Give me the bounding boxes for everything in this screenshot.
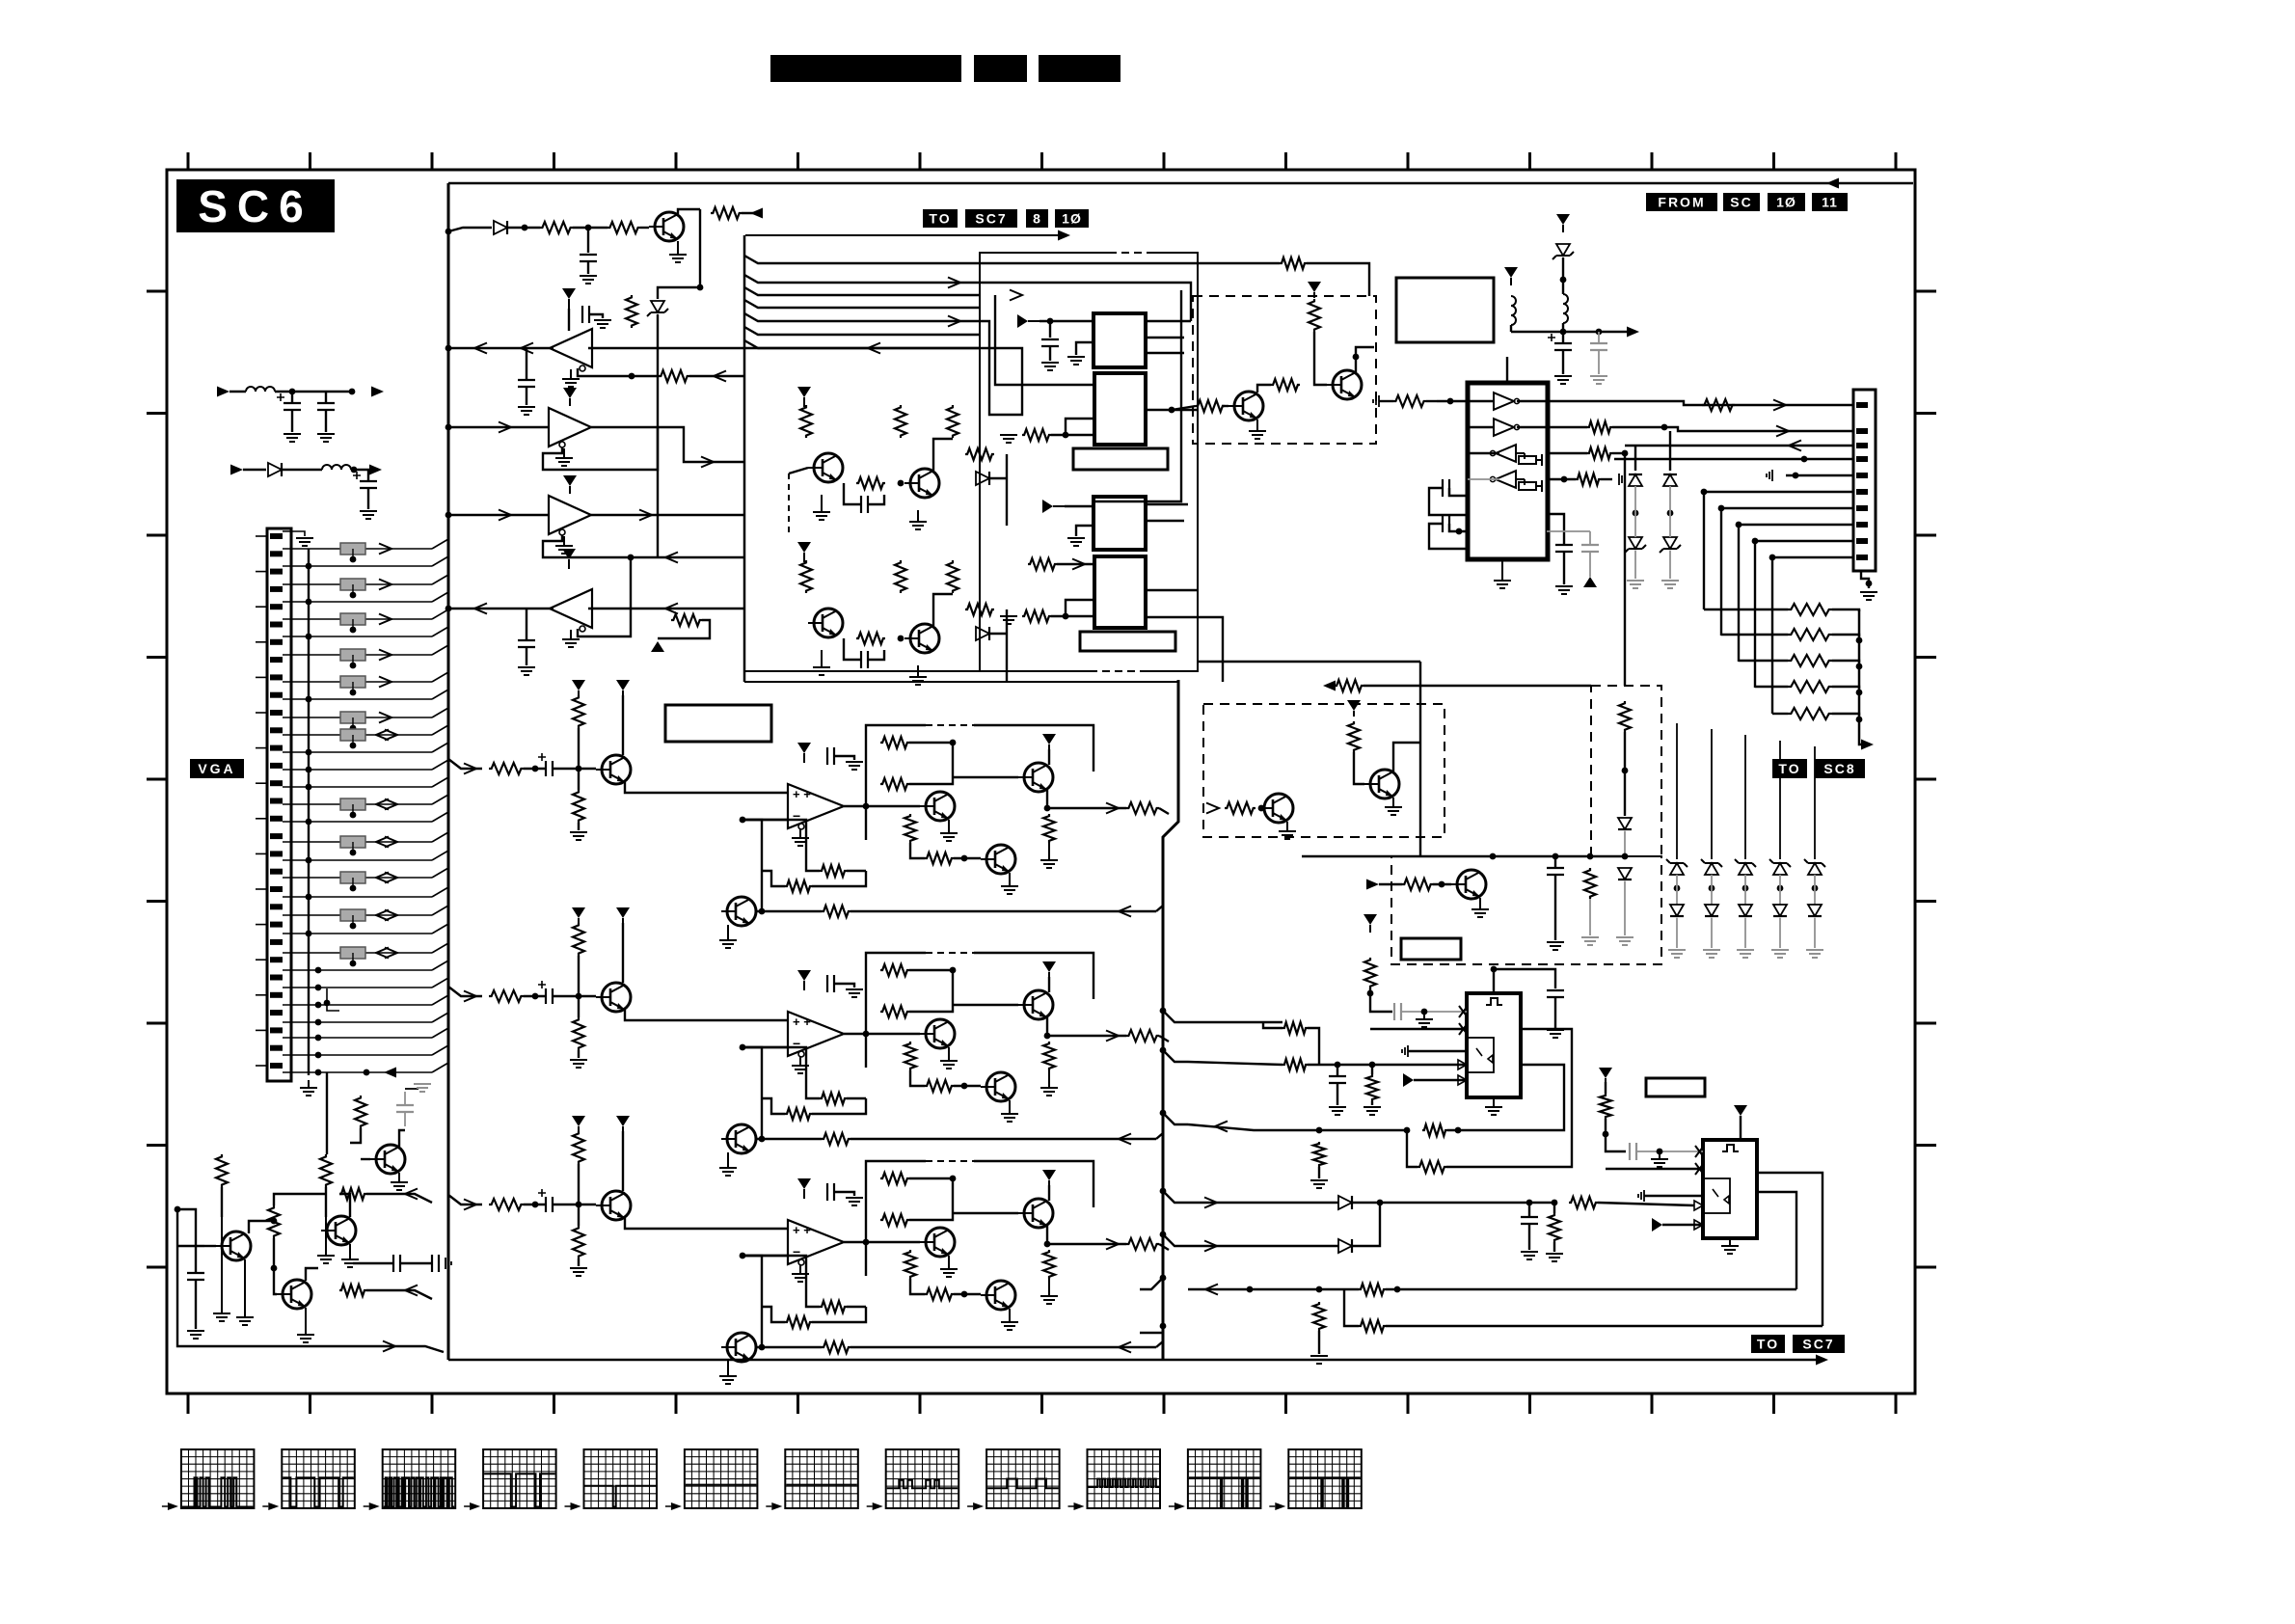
oscilloscope waveform grid 12 <box>1288 1449 1362 1508</box>
wire Q11 coll up <box>1356 347 1374 372</box>
arrowhead scope 8 input <box>873 1502 883 1510</box>
arrowhead row1172 <box>1215 1122 1228 1132</box>
power arrow P2 <box>1556 214 1570 232</box>
wire VGA row ext 1 <box>309 601 432 603</box>
ferrite bead FB4 <box>340 649 365 661</box>
capacitor C12 U5 <box>1443 515 1449 532</box>
wire A1 output left <box>448 347 553 349</box>
resistor R57 <box>1600 1094 1611 1119</box>
junction R1 out <box>585 225 592 231</box>
ferrite bead FB2 <box>340 579 365 590</box>
dashed wire bias <box>788 474 790 535</box>
ferrite bead FB8 <box>340 798 365 810</box>
wire R Qb emitter out <box>1047 790 1093 808</box>
junction G fb <box>759 1136 766 1143</box>
op-amp U-B <box>788 1220 844 1265</box>
junction chain 5 <box>1812 885 1819 892</box>
arrowhead left at R3 <box>750 208 763 219</box>
VGA pin wire y606 <box>283 583 309 585</box>
resistor R-G-fba <box>820 1093 847 1104</box>
arrowhead input pigtail 2 <box>230 465 243 475</box>
op-amp U-R <box>788 784 844 829</box>
capacitor C2 under R1 <box>580 255 597 261</box>
resistor R-R-g <box>925 853 954 864</box>
resistor R-G-pd <box>573 1017 584 1050</box>
resistor R-B-h <box>904 1250 916 1279</box>
arrowhead B out <box>1106 1239 1119 1250</box>
resistor R-B-fb <box>822 1341 850 1353</box>
wire VGA lower row 16 <box>309 1054 432 1056</box>
zener D-col1-b <box>1625 537 1646 553</box>
oscilloscope waveform grid 5 <box>584 1449 658 1508</box>
svg-text:1Ø: 1Ø <box>1062 211 1082 227</box>
arrowhead G fb <box>1119 1134 1131 1145</box>
junction G f1 <box>950 967 957 974</box>
VGA pin wire y1042 <box>283 1004 309 1006</box>
buffer U5d <box>1490 471 1516 488</box>
junction G minus <box>740 1044 746 1051</box>
wire row1337 main <box>1188 1288 1319 1290</box>
wire fb cross <box>631 556 744 558</box>
power arrow B a <box>572 1116 585 1131</box>
junction U5d out <box>1561 476 1568 483</box>
op-amp U-G <box>788 1012 844 1057</box>
junction bus A1 <box>445 345 452 352</box>
arrowhead R45 <box>405 1286 418 1296</box>
resistor R54 fb <box>1422 1124 1447 1136</box>
arrowhead fanout line 6 into box <box>948 316 960 327</box>
diode D13 row1292 <box>1338 1239 1352 1253</box>
junction VGA lower row 17 <box>315 1069 322 1076</box>
wire C20 stem <box>1336 1065 1338 1076</box>
VGA pin wire y762 <box>283 734 309 736</box>
wire R11 to U4 <box>1051 615 1094 617</box>
ground B pd <box>570 1268 587 1276</box>
wire diode col mid 1 <box>1634 486 1636 537</box>
resistor R10 at U2 input <box>1022 429 1051 441</box>
bus tap at y1060 <box>1163 1011 1188 1022</box>
resistor Rb1 upper row <box>800 405 812 438</box>
junction bus tap y1292 <box>1160 1232 1167 1238</box>
junction bus A2 <box>445 424 452 431</box>
wire R fba left <box>742 820 820 871</box>
junction out row3 <box>1622 450 1629 457</box>
arrowhead VGA row 5 <box>379 713 391 723</box>
wire U2 output right <box>1146 409 1198 411</box>
wire R fb1 <box>755 910 822 912</box>
ground G opamp <box>792 1056 809 1073</box>
wire bead dot stem FB4 <box>352 655 354 665</box>
junction Q22 Q21 <box>271 1218 278 1225</box>
label 10 (from SC 10 11) <box>1768 193 1805 211</box>
junction ZD2 <box>1560 277 1567 284</box>
wire diode lower to node <box>989 633 1007 635</box>
junction VGA bus row 0 <box>306 563 312 570</box>
junction B minus <box>740 1253 746 1259</box>
ground C21 <box>1416 1012 1433 1027</box>
arrowhead R out <box>1106 803 1119 814</box>
wire FF2 pin2 <box>1606 1168 1703 1170</box>
junction Q14 base <box>1439 881 1445 888</box>
capacitor Cc lower row <box>861 651 868 668</box>
VGA connector pin stubs <box>256 536 267 1066</box>
wire out row3 drop <box>1624 453 1626 686</box>
ground Q1 emitter <box>669 241 687 262</box>
bus wire horizontal upper feed <box>744 670 980 672</box>
wire bead dot stem FB11 <box>352 915 354 926</box>
dashed box sync C upper <box>1591 686 1661 856</box>
junction capnet <box>1456 528 1463 535</box>
wire Q22 link <box>249 1221 274 1233</box>
junction ladder5 <box>1856 717 1863 723</box>
ground A2 <box>555 448 573 466</box>
wire U5 out row3b <box>1612 452 1625 454</box>
sync processor block outline <box>980 253 1198 671</box>
junction bus 1382 <box>1160 1323 1167 1330</box>
wire bead dot stem FB12 <box>352 953 354 963</box>
wire J2 gnd tail <box>1861 571 1869 588</box>
wire fanout ext right <box>980 262 1280 264</box>
double arrow VGA row 11 l <box>376 948 389 959</box>
VGA pin wire y1024 <box>283 987 309 988</box>
wire chain 4 mid <box>1779 875 1781 905</box>
wire row1247 <box>1188 1202 1338 1204</box>
junction Q11 node <box>1353 354 1360 361</box>
wire bead dot stem FB3 <box>352 619 354 630</box>
svg-text:−: − <box>793 808 800 824</box>
redacted title bar 3 <box>1039 55 1120 82</box>
diode D-col2-a <box>1663 474 1677 486</box>
label FROM (from SC 10 11) <box>1646 193 1717 211</box>
resistor R13 fanout ext <box>1280 257 1307 269</box>
junction row1247 c <box>1526 1200 1533 1206</box>
wire R45 to bus <box>366 1290 432 1299</box>
wire input row top <box>448 228 492 231</box>
ground C22 <box>1547 1030 1564 1038</box>
dash gap R box <box>926 723 974 727</box>
ground Q12 <box>1279 822 1296 839</box>
arrowhead cluster loop <box>383 1341 395 1352</box>
wire C16 gnd link <box>405 1088 418 1090</box>
wire R fba loop <box>847 870 866 872</box>
wire R Rh <box>910 843 925 858</box>
resistor R-B-pu <box>573 1131 584 1164</box>
wire C8 stem <box>367 470 369 481</box>
power arrow R opamp <box>797 743 811 763</box>
label 10 (to SC7 8 10) <box>1055 209 1089 228</box>
ground R pd <box>570 832 587 840</box>
wire Qb upper collector <box>933 439 953 471</box>
wire fanout ext elbow <box>1307 263 1369 296</box>
wire pigtail2 <box>243 469 266 471</box>
wire R30 <box>1222 405 1228 407</box>
transistor Q-R-in <box>596 755 631 784</box>
arrowhead A1 in <box>868 343 880 354</box>
resistor R1 input row <box>540 222 573 233</box>
arrowhead fanout line 2 into box <box>948 278 960 288</box>
transistor Q-G-in <box>596 983 631 1012</box>
wire C15 down <box>1554 875 1556 940</box>
ground left of R11 <box>1000 616 1017 624</box>
wire U3 right stub1 <box>1146 503 1188 505</box>
resistor R-B-pd <box>573 1226 584 1259</box>
double arrow VGA row 8 r <box>385 837 397 848</box>
wire chain 1 mid <box>1676 875 1678 905</box>
resistor R-G-f1 <box>880 964 909 976</box>
wire U5 out row2b <box>1612 427 1853 431</box>
arrowhead row1292 <box>1204 1241 1217 1252</box>
wire R37 down <box>1589 899 1591 935</box>
wire A1 input right <box>588 347 980 349</box>
diode chain 4 lower <box>1773 905 1787 916</box>
oscilloscope waveform grid 6 <box>685 1449 758 1508</box>
resistor R-ladder3 <box>1788 655 1832 666</box>
wire FF1 supply link <box>1494 969 1555 988</box>
ferrite bead FB10 <box>340 872 365 883</box>
label SC8 (to SC8) <box>1815 759 1865 778</box>
ground C17 <box>187 1331 204 1339</box>
wire U1 right stub3 <box>1146 352 1184 354</box>
wire U5 top pin <box>1506 357 1508 383</box>
oscilloscope waveform grid 4 <box>483 1449 555 1508</box>
wire Q10 coll to R32 <box>1257 385 1271 392</box>
wire R opamp minus <box>742 819 788 821</box>
power arrow upper row <box>797 387 811 407</box>
double arrow VGA row 9 r <box>385 873 397 883</box>
wire B pd <box>578 1205 580 1226</box>
wire row1375 <box>1344 1289 1359 1326</box>
wire U5d sgnd link <box>1601 478 1612 480</box>
ferrite bead FB7 <box>340 729 365 741</box>
arrowhead scope 4 input <box>470 1502 480 1510</box>
wire FF2 out right2 <box>1757 1173 1822 1326</box>
ground FF1 bottom <box>1485 1097 1502 1115</box>
pulse glyph FF2 <box>1722 1145 1739 1151</box>
ground A3 <box>555 536 573 554</box>
resistor R-B-fbb <box>785 1316 812 1328</box>
wire R fbb loop <box>812 871 866 886</box>
ground G pd <box>570 1060 587 1068</box>
ground C8 <box>360 511 377 519</box>
zener chain 4 top <box>1769 859 1791 875</box>
sheet border frame <box>167 170 1915 1394</box>
ground FF2 bottom <box>1721 1238 1739 1254</box>
wire B Qb coll <box>1048 1185 1050 1201</box>
signal ground U5d <box>1619 474 1625 485</box>
wire G pd2 <box>578 1050 580 1058</box>
ground R Qc emitter <box>1001 873 1018 894</box>
ground B Ri <box>1040 1279 1058 1304</box>
zener chain 3 top <box>1735 859 1756 875</box>
oscilloscope waveform grid 3 <box>383 1449 456 1508</box>
wire C10 stem <box>1598 332 1600 343</box>
power arrow R b <box>616 680 630 695</box>
wire Q1 junction cap <box>587 228 589 253</box>
wire VGA bead row 5 <box>309 717 432 718</box>
VGA pin wire y624 <box>283 601 309 603</box>
resistor R-R-out <box>1126 802 1159 814</box>
wire junction to zener <box>658 287 700 299</box>
capacitor C-B-in polarized <box>538 1189 553 1212</box>
arrowhead scope 9 input <box>973 1502 984 1510</box>
resistor R22 out row2 <box>1587 421 1612 433</box>
wire U5d out <box>1548 478 1576 480</box>
wire diode col down 1 <box>1634 551 1636 579</box>
junction R minus <box>740 817 746 824</box>
power arrow Q11 <box>1308 282 1321 298</box>
wire Q23 coll <box>306 1268 318 1281</box>
junction VGA lower row 15 <box>315 1035 322 1042</box>
wire C9 stem <box>1562 332 1564 343</box>
ground R37 <box>1581 937 1599 945</box>
junction below bead FB1 <box>350 556 357 563</box>
resistor R-ladder2 <box>1788 629 1832 640</box>
IC U3 sync separator lower <box>1093 497 1146 550</box>
ground upper Qa emitter <box>813 495 830 520</box>
VGA pin wire y816 <box>283 786 309 788</box>
wire pigtail2c <box>351 469 371 471</box>
wire C2 to gnd <box>587 261 589 274</box>
power arrow above FF1 <box>1363 914 1377 933</box>
wire cap loop lower <box>844 638 861 660</box>
resistor R43 <box>268 1205 280 1238</box>
wire VGA bead row 8 <box>309 841 432 843</box>
wire G out arrow <box>1093 1035 1126 1037</box>
capacitor C7 pigtail1 <box>317 403 335 410</box>
wire chain 2 btm <box>1711 918 1713 948</box>
diode D lower row <box>976 627 989 640</box>
wire B opamp to Qa <box>844 1241 920 1243</box>
arrowhead bottom bus to SC7 <box>1816 1355 1828 1366</box>
signal ground FF2 <box>1638 1190 1644 1202</box>
IC FF1 H-pulse box <box>1467 993 1521 1097</box>
ground chain 3 <box>1737 950 1754 958</box>
oscilloscope waveform grid 2 <box>282 1449 355 1508</box>
wire fanout bus line 1 <box>744 256 980 263</box>
ferrite bead FB12 <box>340 947 365 959</box>
wire box route mid <box>995 295 1093 385</box>
double arrow VGA row 7 l <box>376 799 389 810</box>
wire U1 right stub2 <box>1146 337 1184 338</box>
power arrow lower row <box>797 542 811 562</box>
wire C16 down <box>404 1112 406 1126</box>
wire Q13 link to C <box>1419 662 1421 856</box>
wire fanout bus line 7 <box>744 340 980 348</box>
dashed box sync C lower <box>1391 856 1661 964</box>
junction cluster left <box>175 1206 181 1213</box>
diode D12 row1247 <box>1338 1196 1352 1209</box>
junction C23 <box>1657 1149 1663 1155</box>
svg-text:VGA: VGA <box>198 761 235 776</box>
resistor R-R-in <box>489 763 524 774</box>
junction row1172b <box>1404 1127 1411 1134</box>
ground R61 <box>1310 1356 1328 1364</box>
wire C6 down <box>291 410 293 432</box>
junction row1172 <box>1316 1127 1323 1134</box>
wire G Qb base <box>953 1004 1018 1006</box>
VGA pin wire y834 <box>283 803 309 805</box>
wire C8 down <box>367 488 369 509</box>
junction tail row <box>364 1069 370 1076</box>
VGA pin wire y1094 <box>283 1054 309 1056</box>
ground R opamp <box>792 828 809 846</box>
wire row1247 to FF2 <box>1598 1203 1694 1205</box>
wire Q20 coll <box>399 1130 405 1147</box>
junction A1 fb <box>629 373 635 380</box>
wire G fba left <box>742 1047 820 1098</box>
junction VGA lower row 14 <box>315 1019 322 1026</box>
ground G Ri <box>1040 1070 1058 1096</box>
wire VGA lower row 17 <box>309 1071 432 1073</box>
power arrow G a <box>572 907 585 923</box>
transistor Q-G-b <box>1018 990 1053 1019</box>
wire upper node vert <box>1006 454 1008 526</box>
wire A2 output elbow <box>591 427 744 462</box>
wire fanout bus line 6 <box>744 327 980 335</box>
double arrow VGA row 11 r <box>385 948 397 959</box>
arrowhead into dashed B <box>1206 803 1219 814</box>
svg-text:+ +: + + <box>793 1015 811 1029</box>
wire VGA bead row 10 <box>309 914 432 916</box>
svg-text:−: − <box>793 1244 800 1259</box>
wire Q23 base link <box>274 1238 277 1294</box>
wire R40 link <box>350 1128 361 1143</box>
transistor Q13 in dashed B <box>1364 770 1399 798</box>
double arrow VGA row 10 l <box>376 910 389 921</box>
wire G Qb coll <box>1048 977 1050 992</box>
resistor R-ladder4 <box>1788 681 1832 692</box>
ground lower Qa emitter <box>813 650 830 675</box>
arrowhead scope 7 input <box>771 1502 782 1510</box>
wire A3 input <box>448 514 549 516</box>
wire C4 stem <box>526 348 527 380</box>
ground below C1 <box>1041 363 1059 370</box>
junction D12 <box>1377 1200 1384 1206</box>
power arrow into U1 supply <box>1017 314 1039 328</box>
junction below bead FB9 <box>350 850 357 856</box>
resistor R-B-in <box>489 1199 524 1210</box>
bus tap at y1247 <box>1163 1191 1188 1203</box>
wire C1 to ground <box>1049 346 1051 361</box>
wire R fb to minus <box>742 820 762 911</box>
wire VGA gnd branch <box>327 988 339 1011</box>
ground Q14 <box>1471 898 1489 917</box>
diode D1 input row <box>494 221 507 234</box>
wire G in3 <box>553 995 596 997</box>
wire U5b input <box>1468 426 1494 428</box>
wire R comp gnd <box>834 756 854 760</box>
wire G fb1 <box>755 1138 822 1140</box>
junction R Rg <box>961 855 968 862</box>
arrowhead scope 12 input <box>1275 1502 1285 1510</box>
resistor R-G-h <box>904 1042 916 1070</box>
wire R10 to U2 <box>1051 434 1093 436</box>
buffer U5a <box>1494 392 1520 410</box>
arrowhead G out <box>1106 1031 1119 1042</box>
wire C13 up <box>1547 514 1564 545</box>
wire U5a output <box>1517 400 1554 402</box>
resistor R41 <box>216 1154 228 1187</box>
wire Q20 base <box>361 1158 370 1160</box>
resistor R53 row1172 <box>1313 1142 1325 1167</box>
junction FF1 supply <box>1491 966 1498 973</box>
resistor R36 Q14 base <box>1402 879 1433 890</box>
capacitor C1 at U1 supply <box>1041 339 1059 346</box>
wire VGA bead row 11 <box>309 952 432 954</box>
svg-text:TO: TO <box>1778 761 1800 776</box>
resistor Re lower row <box>895 560 906 593</box>
VGA pin wire y587 <box>283 565 309 567</box>
